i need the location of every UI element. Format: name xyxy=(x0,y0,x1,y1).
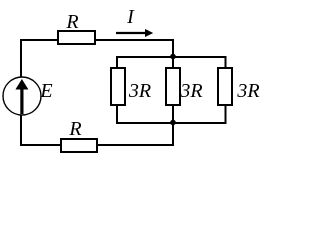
svg-text:3R: 3R xyxy=(128,80,151,102)
svg-text:E: E xyxy=(39,80,52,102)
svg-text:R: R xyxy=(68,118,81,140)
svg-text:3R: 3R xyxy=(236,80,259,102)
svg-text:3R: 3R xyxy=(179,80,202,102)
svg-text:I: I xyxy=(126,6,135,28)
svg-text:R: R xyxy=(65,11,78,33)
